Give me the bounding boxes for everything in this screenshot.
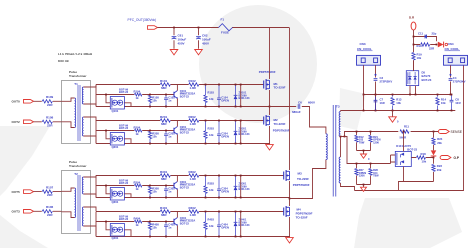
svg-text:R101: R101 — [160, 79, 168, 83]
wire cell3 box right — [124, 194, 131, 198]
junction C62 — [198, 27, 200, 29]
transformer T3 primary coil — [326, 134, 327, 160]
resistor R103 12k — [205, 85, 207, 107]
svg-text:R18: R18 — [421, 152, 427, 156]
wire upper RC rail — [357, 151, 371, 154]
svg-text:272P/2KV: 272P/2KV — [453, 79, 466, 83]
connector O/P — [440, 156, 451, 160]
svg-text:272P/2KV: 272P/2KV — [380, 79, 393, 83]
svg-text:R402: R402 — [189, 206, 197, 210]
svg-text:1n: 1n — [168, 135, 171, 139]
svg-text:PDP57N20F: PDP57N20F — [273, 129, 290, 133]
transistor Q401 MMBT2222A — [173, 219, 175, 225]
wire cell3 aux rail — [96, 185, 174, 187]
svg-text:68R: 68R — [161, 122, 167, 126]
svg-text:BOT-23: BOT-23 — [180, 222, 190, 226]
svg-text:R102: R102 — [189, 79, 197, 83]
wire D10 top pin — [403, 132, 405, 152]
ground lower RC — [361, 187, 367, 191]
svg-text:R301: R301 — [160, 170, 168, 174]
svg-text:F1: F1 — [221, 18, 225, 22]
wire cell3 top rail — [96, 175, 284, 177]
capacitor C104 OPEN — [218, 85, 220, 107]
wire OUT5 — [34, 191, 62, 193]
capacitor C62 — [196, 37, 201, 39]
svg-text:1n: 1n — [168, 226, 171, 230]
resistor R303 12k — [205, 176, 207, 198]
svg-text:68R: 68R — [161, 213, 167, 217]
resistor R102 1.8R — [189, 83, 199, 86]
svg-text:R204: R204 — [134, 126, 141, 130]
svg-text:1n: 1n — [168, 190, 171, 194]
svg-text:BOT-23: BOT-23 — [119, 126, 129, 130]
svg-text:BOT-23: BOT-23 — [119, 217, 129, 221]
resistor R23 20k — [433, 158, 435, 182]
wire D5 top pin — [413, 60, 415, 70]
svg-text:T8W: T8W — [359, 140, 365, 144]
capacitor C3 272P/2KV — [374, 79, 378, 81]
ground M4 source — [286, 238, 294, 243]
svg-text:22p: 22p — [432, 32, 437, 36]
capacitor C7 104 — [375, 95, 377, 97]
ground fan rail — [392, 111, 394, 117]
svg-text:12k: 12k — [209, 188, 214, 192]
svg-text:R11: R11 — [404, 125, 409, 129]
svg-text:1.8R: 1.8R — [190, 86, 197, 90]
svg-text:R302: R302 — [189, 170, 197, 174]
svg-text:OPEN: OPEN — [221, 226, 229, 230]
svg-text:104!: 104! — [380, 101, 386, 105]
svg-text:OUT5: OUT5 — [12, 190, 21, 194]
svg-text:10k: 10k — [422, 160, 427, 164]
wire C61 stub — [173, 28, 175, 49]
svg-text:12k: 12k — [152, 99, 157, 103]
svg-text:22R: 22R — [47, 103, 53, 107]
svg-text:R401: R401 — [160, 206, 168, 210]
svg-text:BOD-123: BOD-123 — [239, 96, 251, 100]
wire bridge B midpoint to T3 — [290, 160, 326, 199]
svg-text:12k: 12k — [152, 190, 157, 194]
wire OUT2 — [34, 121, 62, 123]
wire lower RC rail — [357, 185, 371, 188]
wire cell4 bottom rail — [96, 236, 290, 238]
resistor R304 1k — [135, 184, 142, 187]
svg-text:T2: T2 — [74, 172, 78, 176]
svg-text:20k: 20k — [437, 141, 442, 145]
svg-text:R109: R109 — [46, 95, 54, 99]
svg-text:BOD-123: BOD-123 — [239, 223, 251, 227]
svg-text:R103: R103 — [208, 91, 215, 95]
diode D top right — [438, 42, 444, 48]
svg-text:PFC_OUT(380Vdc): PFC_OUT(380Vdc) — [128, 18, 157, 22]
transistor Q201 MMBT2222A — [173, 128, 175, 134]
ground C61 — [170, 50, 178, 55]
wire cell3 box left — [106, 186, 110, 194]
wire T3 coil B bottom to ground rail — [341, 183, 355, 191]
svg-text:OPEN: OPEN — [221, 190, 229, 194]
resistor R107 22R — [42, 190, 52, 193]
svg-text:R403: R403 — [208, 218, 215, 222]
mosfet M3 — [283, 172, 285, 180]
resistor R24 20k — [433, 132, 435, 151]
svg-text:CN3: CN3 — [360, 42, 366, 46]
svg-text:C6: C6 — [298, 100, 302, 104]
svg-text:600V: 600V — [308, 100, 315, 104]
resistor R408 12k — [149, 222, 151, 237]
svg-text:R202: R202 — [189, 115, 197, 119]
transformer T1 box — [62, 81, 91, 144]
svg-text:R203: R203 — [208, 127, 215, 131]
ground C62 — [195, 50, 203, 55]
junction T3 center tap — [340, 137, 342, 158]
svg-text:L1 k 700uH / L2 k 400uH: L1 k 700uH / L2 k 400uH — [58, 52, 92, 56]
svg-text:R304: R304 — [134, 181, 141, 185]
svg-text:R106: R106 — [46, 205, 54, 209]
connector PFC_OUT — [148, 26, 158, 30]
resistor R403 12k — [205, 212, 207, 237]
svg-text:KXC 99: KXC 99 — [58, 59, 69, 63]
svg-text:SENSE: SENSE — [451, 130, 463, 134]
wire CN3 pin1 to fan rail — [363, 95, 365, 111]
ground M2 source — [266, 145, 274, 150]
svg-text:10k: 10k — [396, 101, 401, 105]
wire D10 bottom pin — [403, 167, 405, 182]
svg-text:BOT-23: BOT-23 — [407, 147, 417, 151]
wire D10 right to R18b — [411, 157, 433, 159]
transformer T1 primary coil — [75, 98, 76, 127]
svg-text:PDP57N20F: PDP57N20F — [259, 70, 276, 74]
svg-text:O.P: O.P — [454, 156, 460, 160]
wire mid rail — [364, 94, 452, 96]
capacitor C203 1n — [165, 131, 167, 144]
transformer T1 secondary coil A — [82, 87, 83, 104]
svg-text:CN_COOL: CN_COOL — [357, 47, 372, 51]
capacitor C304 OPEN — [218, 176, 220, 198]
svg-text:OUT2: OUT2 — [12, 120, 21, 124]
wire fan rail — [341, 110, 456, 112]
wire cell2 right leg — [240, 121, 242, 144]
junction bridge B midpoint — [289, 198, 291, 200]
wire CN4 pin1 — [450, 65, 452, 94]
wire cell2 left leg — [95, 121, 97, 144]
svg-text:12k: 12k — [209, 133, 214, 137]
ground upper RC — [361, 154, 367, 158]
svg-text:12k: 12k — [152, 135, 157, 139]
svg-text:Q101: Q101 — [112, 109, 119, 113]
resistor R308 12k — [149, 186, 151, 198]
resistor R204 1k — [135, 129, 142, 132]
svg-text:T3: T3 — [336, 104, 340, 108]
resistor R28 104 — [370, 164, 372, 185]
wire CN3 pin1 — [363, 65, 365, 94]
junction cell1 aux — [105, 94, 107, 96]
junction cell2 aux — [105, 130, 107, 132]
resistor R18b 10k — [417, 156, 426, 159]
capacitor C61 — [172, 37, 177, 39]
svg-text:TO-220F: TO-220F — [274, 122, 286, 126]
wire D5 bottom pins — [410, 86, 416, 95]
resistor R106 22R — [42, 210, 52, 213]
capacitor C103 1n — [165, 95, 167, 107]
svg-text:560R: 560R — [400, 135, 407, 139]
wire cell4 box right — [124, 230, 131, 237]
wire cell1 box right — [124, 103, 131, 107]
wire M3 drain — [289, 28, 291, 171]
svg-text:D.R: D.R — [409, 16, 415, 20]
wire cell3 bottom rail — [96, 197, 290, 199]
transformer T1 secondary wires — [84, 85, 97, 144]
resistor R208 12k — [149, 131, 151, 144]
transformer T1 secondary coil B — [82, 117, 83, 136]
wire cell2 box right — [124, 139, 131, 144]
transformer T2 secondary coil A — [82, 177, 83, 194]
svg-text:R404: R404 — [134, 217, 141, 221]
wire cell4 left leg — [95, 212, 97, 237]
resistor R101 68R — [160, 83, 170, 86]
svg-text:R107: R107 — [46, 186, 54, 190]
wire M1 source to M2 drain — [269, 90, 271, 115]
wire cell1 left leg — [95, 85, 97, 107]
resistor R201 68R — [160, 119, 170, 122]
svg-text:Q201: Q201 — [112, 145, 119, 149]
junction O/P node — [433, 157, 435, 159]
capacitor C4 272P/2KV — [449, 79, 453, 81]
transformer T1 core — [78, 85, 80, 141]
transformer T3 secondary coil B — [339, 157, 340, 183]
capacitor C403 1n — [165, 222, 167, 237]
junction bridge A midpoint — [269, 106, 271, 108]
wire T3 coil A top to fan rail — [340, 111, 342, 112]
svg-text:TO-220F: TO-220F — [274, 86, 286, 90]
wire C62 stub — [198, 28, 200, 49]
svg-text:T1: T1 — [74, 82, 78, 86]
svg-text:CN4: CN4 — [448, 42, 454, 46]
svg-text:R201: R201 — [160, 115, 168, 119]
resistor R404 1k — [135, 220, 142, 223]
transformer T2 primary coil — [75, 188, 76, 217]
svg-text:OUT0: OUT0 — [12, 100, 21, 104]
svg-text:450V: 450V — [202, 41, 209, 45]
wire cell2 box left — [106, 131, 110, 139]
resistor R13 10k — [392, 95, 394, 111]
svg-text:BOT-23: BOT-23 — [119, 181, 129, 185]
wire cell1 top rail — [96, 84, 264, 86]
svg-text:68R: 68R — [161, 177, 167, 181]
resistor R402 1.8R — [189, 210, 199, 213]
transformer T2 core — [78, 175, 80, 231]
svg-text:22R: 22R — [47, 123, 53, 127]
svg-text:1206: 1206 — [359, 174, 365, 178]
resistor R202 1.8R — [189, 119, 199, 122]
wire M1 drain — [269, 28, 271, 80]
svg-text:10k: 10k — [441, 101, 446, 105]
wire cell4 aux rail — [96, 221, 174, 223]
svg-text:12k: 12k — [209, 224, 214, 228]
svg-text:1n: 1n — [168, 99, 171, 103]
svg-text:Q401: Q401 — [112, 236, 119, 240]
svg-text:1.8R: 1.8R — [190, 213, 197, 217]
svg-text:R104: R104 — [134, 90, 141, 94]
svg-text:BOT-23: BOT-23 — [180, 131, 190, 135]
resistor R21 OPEN — [370, 132, 372, 151]
svg-text:BOT-23: BOT-23 — [180, 95, 190, 99]
transformer T3 core — [333, 105, 336, 197]
mosfet M4 — [283, 208, 285, 216]
wire CN3 pin2 — [375, 65, 377, 110]
transistor Q101 MMBT2222A — [173, 92, 175, 98]
svg-text:22R: 22R — [47, 193, 53, 197]
wire cell1 bottom rail — [96, 106, 270, 108]
svg-text:1.8R: 1.8R — [190, 122, 197, 126]
svg-text:OPEN: OPEN — [221, 99, 229, 103]
wire cell3 left leg — [95, 176, 97, 198]
zener ZD301 — [235, 176, 237, 198]
wire cell2 bottom rail — [96, 143, 270, 145]
svg-text:1k: 1k — [136, 187, 140, 191]
svg-text:FUSE: FUSE — [221, 31, 229, 35]
resistor R14 10k — [437, 95, 439, 111]
resistor R108 12k — [149, 95, 151, 107]
resistor R203 12k — [205, 121, 207, 144]
resistor R19 10k — [412, 53, 415, 60]
wire M4 source — [289, 217, 291, 237]
svg-text:CN_COOL: CN_COOL — [445, 47, 460, 51]
resistor R301 68R — [160, 174, 170, 177]
resistor R12 104 — [356, 132, 358, 151]
svg-text:OPEN: OPEN — [221, 135, 229, 139]
resistor R104 1k — [135, 93, 142, 96]
zener ZD201 — [235, 121, 237, 144]
capacitor C404 OPEN — [218, 212, 220, 237]
wire cell2 aux rail — [96, 130, 174, 132]
svg-text:22R: 22R — [429, 47, 434, 51]
svg-text:T8W: T8W — [373, 174, 379, 178]
wire cell2 top rail — [96, 120, 264, 122]
wire cell3 right leg — [240, 176, 242, 198]
svg-text:M3: M3 — [298, 171, 302, 175]
svg-text:1206: 1206 — [373, 140, 379, 144]
mosfet M1 — [263, 81, 265, 89]
capacitor C204 OPEN — [218, 121, 220, 144]
svg-text:20k: 20k — [437, 168, 442, 172]
wire M2 source — [269, 126, 271, 144]
connector SENSE — [438, 130, 449, 134]
wire OUT3 — [34, 210, 62, 212]
svg-text:BOD-123: BOD-123 — [239, 187, 251, 191]
wire M3 source to M4 drain — [289, 181, 291, 206]
transformer T2 primary wires — [62, 188, 75, 218]
resistor R302 1.8R — [189, 174, 199, 177]
svg-text:BOT-23: BOT-23 — [119, 90, 129, 94]
wire OUT0 — [34, 100, 62, 102]
junction CN3 pin1 mid — [363, 94, 365, 96]
resistor R108 22R — [42, 120, 52, 123]
svg-text:R303: R303 — [208, 182, 215, 186]
svg-text:12k: 12k — [152, 226, 157, 230]
transformer T2 box — [62, 171, 91, 234]
wire secondary ground rail — [355, 65, 464, 190]
svg-text:10k: 10k — [417, 56, 422, 60]
wire bridge A midpoint to C6 — [270, 107, 326, 134]
svg-text:BOD-123: BOD-123 — [239, 132, 251, 136]
transistor Q301 MMBT2222A — [173, 183, 175, 189]
wire D.R down — [413, 30, 415, 71]
zener ZD101 — [235, 85, 237, 107]
svg-text:12k: 12k — [209, 97, 214, 101]
wire sense rail — [341, 132, 439, 137]
wire lower tap rail — [345, 137, 396, 164]
transformer T2 secondary wires — [84, 175, 97, 236]
capacitor C303 1n — [165, 186, 167, 198]
wire cell1 right leg — [240, 85, 242, 107]
transformer T1 primary wires — [62, 98, 75, 128]
svg-text:Transformer: Transformer — [69, 164, 87, 168]
svg-text:C11: C11 — [418, 32, 423, 36]
wire cell4 top rail — [96, 211, 284, 213]
wire top rail — [158, 27, 290, 29]
svg-text:BOT-23: BOT-23 — [422, 78, 432, 82]
svg-text:PDP57N20F: PDP57N20F — [293, 183, 310, 187]
wire cell1 aux rail — [96, 94, 174, 96]
transformer T3 secondary coil A — [339, 112, 340, 137]
resistor R401 68R — [160, 210, 170, 213]
resistor R109 22R — [42, 100, 52, 103]
svg-text:OUT3: OUT3 — [12, 210, 21, 214]
wire cell1 box left — [106, 95, 110, 103]
wire R23 bottom return — [399, 182, 434, 191]
svg-text:BOT-23: BOT-23 — [180, 186, 190, 190]
svg-text:R108: R108 — [46, 116, 54, 120]
transformer T2 secondary coil B — [82, 207, 83, 226]
junction R24 top — [433, 131, 435, 133]
junction cell3 aux — [105, 185, 107, 187]
wire cell4 box left — [106, 222, 110, 230]
capacitor C6 680nF 600V — [298, 104, 300, 109]
svg-text:450V: 450V — [178, 41, 185, 45]
junction C61 — [173, 27, 175, 29]
svg-text:104!: 104! — [455, 101, 461, 105]
svg-text:TO-220F: TO-220F — [297, 177, 309, 181]
svg-text:1k: 1k — [136, 223, 140, 227]
svg-text:22R: 22R — [47, 213, 53, 217]
capacitor C8 104 — [451, 95, 453, 111]
svg-text:68R: 68R — [161, 86, 167, 90]
svg-text:1.8R: 1.8R — [190, 177, 197, 181]
svg-text:680nF: 680nF — [292, 110, 301, 114]
svg-text:Q301: Q301 — [112, 200, 119, 204]
diode D down to O/P node — [431, 150, 437, 155]
svg-text:Transformer: Transformer — [69, 74, 87, 78]
zener ZD401 — [235, 212, 237, 237]
resistor R27 OPEN — [356, 164, 358, 185]
svg-text:1k: 1k — [136, 96, 140, 100]
mosfet M2 — [263, 117, 265, 125]
svg-text:1k: 1k — [136, 132, 140, 136]
svg-text:TO-220F: TO-220F — [296, 215, 308, 219]
wire cell4 right leg — [240, 212, 242, 237]
junction cell4 aux — [105, 221, 107, 223]
